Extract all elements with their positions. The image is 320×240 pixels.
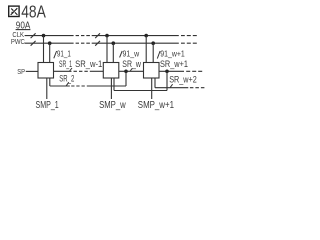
shift register stage box 91_w+1 (144, 63, 160, 79)
wire SMP_w+1 output drop (151, 78, 153, 99)
wire SR_w feedback to omitted stage (87, 71, 126, 86)
wire CLK drop to SR_w box (106, 36, 108, 63)
leader tick SR_2 (66, 82, 69, 86)
wire SR_w+1 end dashes (186, 70, 202, 72)
leader tick SR_1 (70, 68, 72, 71)
node CLK tap stage w (105, 34, 109, 38)
svg-text:SR_1: SR_1 (59, 59, 72, 69)
svg-text:SR_w-1: SR_w-1 (75, 59, 102, 69)
svg-text:91_w: 91_w (123, 48, 140, 58)
node PWC tap stage w+1 (151, 41, 155, 45)
slash on CLK rail left (31, 33, 36, 38)
wire CLK drop to SR_w+1 box (145, 36, 147, 63)
slash on PWC rail left (31, 41, 36, 46)
svg-text:SP: SP (17, 67, 25, 76)
svg-text:SMP_w: SMP_w (99, 100, 126, 111)
svg-text:SR_w+2: SR_w+2 (169, 75, 197, 85)
wire SR_w+2 end dashes (190, 87, 205, 89)
wire PWC drop to SR_w box (112, 43, 114, 62)
slash on CLK rail after break (95, 33, 100, 38)
wire SMP_w output drop (110, 78, 112, 99)
svg-text:SMP_w+1: SMP_w+1 (138, 100, 175, 111)
wire CLK rail break dashes (76, 35, 90, 37)
leader tick SR_w (130, 68, 132, 71)
node PWC tap stage1 (48, 41, 52, 45)
leader tick 91_w (120, 51, 123, 58)
wire PWC drop to SR_1 box (49, 43, 51, 62)
wire PWC rail (25, 42, 179, 44)
svg-text:SR_2: SR_2 (59, 73, 74, 83)
svg-text:91_w+1: 91_w+1 (160, 48, 185, 58)
node SR_w+1 feedback junction (165, 70, 169, 74)
wire SR_w-1 into stage w (90, 70, 104, 72)
node CLK tap stage1 (42, 34, 46, 38)
title glyph 図 (drawn box kanji) (9, 6, 19, 16)
wire SR_1 output of stage 1 (54, 70, 72, 72)
wire stage w+1 reset path (SR_w+2 input) (155, 78, 188, 88)
svg-text:48A: 48A (21, 2, 46, 22)
slash on PWC rail after break (95, 41, 100, 46)
wire PWC drop to SR_w+1 box (152, 43, 154, 62)
wire SR_2 break dashes (71, 85, 85, 87)
wire stage1 reset drop (SR_2 input) (50, 78, 70, 86)
wire SR_1/SR_w-1 break dashes (74, 70, 88, 72)
node PWC tap stage w (112, 41, 116, 45)
svg-text:SR_w: SR_w (122, 59, 141, 69)
wire CLK rail (25, 35, 179, 37)
svg-text:SR_w+1: SR_w+1 (160, 59, 188, 69)
leader tick SR_w+2 (170, 84, 172, 87)
svg-text:SMP_1: SMP_1 (36, 100, 60, 111)
shift register stage box 91_w (103, 63, 119, 79)
svg-text:PWC: PWC (11, 37, 26, 46)
wire PWC rail end dashes (181, 42, 197, 44)
node CLK tap stage w+1 (144, 34, 148, 38)
svg-text:91_1: 91_1 (57, 48, 71, 58)
wire CLK rail end dashes (181, 35, 197, 37)
shift register stage box 91_1 (38, 63, 54, 79)
wire SR_w+1 output of stage w+1 (159, 70, 184, 72)
leader tick 91_1 (54, 51, 57, 58)
wire SR_w output of stage w (119, 70, 144, 72)
wire PWC rail break dashes (76, 42, 90, 44)
wire stage w reset path from SR_w+1 (114, 71, 167, 90)
node SR_w feedback junction (124, 70, 128, 74)
wire SP input (26, 70, 38, 72)
wire CLK drop to SR_1 box (43, 36, 45, 63)
leader tick 91_w+1 (157, 51, 160, 59)
wire SMP_1 output drop (46, 78, 48, 99)
